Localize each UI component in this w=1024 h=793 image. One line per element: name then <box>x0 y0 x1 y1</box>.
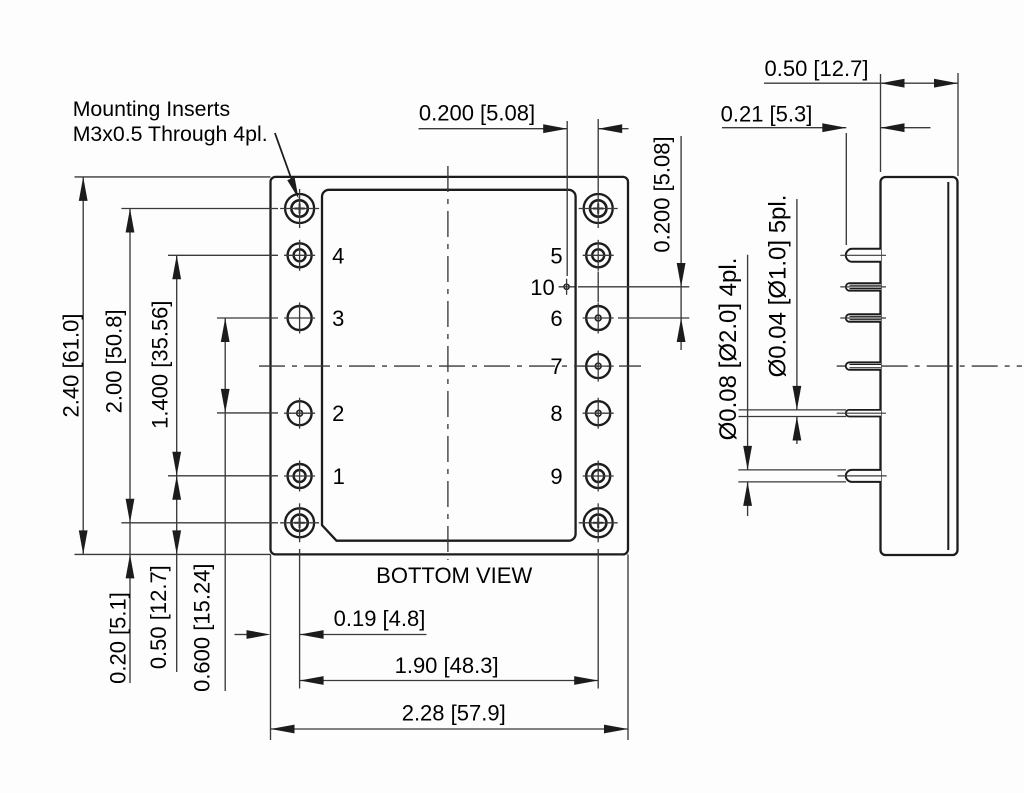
pin 3 <box>284 303 315 334</box>
dimension line 0.600 <box>224 318 226 691</box>
arrow dim 0.200 right upper <box>677 263 686 287</box>
arrow dim 2.28 right <box>604 725 628 734</box>
mounting insert top-left <box>280 189 319 228</box>
dim 2.28 line <box>271 728 629 730</box>
leader line mounting note <box>275 133 295 188</box>
arrow dim 0.200 top left <box>543 124 567 133</box>
top dim 0.200 line <box>419 128 568 130</box>
pin 1 <box>284 461 315 492</box>
bottom extension lines <box>299 549 301 689</box>
arrow dim 0.200 top right <box>598 124 622 133</box>
svg-text:M3x0.5 Through 4pl.: M3x0.5 Through 4pl. <box>73 122 268 146</box>
pin 5 <box>583 240 614 271</box>
svg-text:2.00 [50.8]: 2.00 [50.8] <box>101 309 126 413</box>
arrow dim 0.21 right <box>881 123 905 132</box>
svg-text:2.40 [61.0]: 2.40 [61.0] <box>58 314 83 418</box>
arrow dim 0.50 side right <box>934 79 958 88</box>
arrow dim 1.90 right <box>574 676 598 685</box>
dimension line 2.40 <box>82 177 84 555</box>
pin 9 <box>583 461 614 492</box>
inner pin-surface outline with bottom-left chamfer <box>322 190 576 541</box>
svg-text:3: 3 <box>332 306 344 331</box>
svg-text:5: 5 <box>550 243 562 268</box>
dim 0.21 line <box>722 127 846 129</box>
svg-text:1.90 [48.3]: 1.90 [48.3] <box>395 653 499 678</box>
svg-text:0.19 [4.8]: 0.19 [4.8] <box>334 606 426 631</box>
svg-text:Mounting Inserts: Mounting Inserts <box>73 97 230 121</box>
module body outline <box>271 177 629 555</box>
svg-text:2.28 [57.9]: 2.28 [57.9] <box>402 700 506 725</box>
arrow dia 0.04 lower <box>793 417 802 441</box>
svg-text:9: 9 <box>550 464 562 489</box>
arrow dim 2.00 bottom <box>126 499 135 523</box>
arrow dim 2.40 bottom <box>79 530 88 554</box>
side view texts <box>715 56 868 441</box>
arrow dim 0.600 bottom <box>221 389 230 413</box>
dimension texts (bottom view) <box>58 97 674 725</box>
svg-text:Ø0.04 [Ø1.0] 5pl.: Ø0.04 [Ø1.0] 5pl. <box>764 195 791 378</box>
arrow dim 0.19 left <box>247 630 271 639</box>
side pin stub row 7 (thin) <box>846 362 881 370</box>
arrow dim 1.90 left <box>300 676 324 685</box>
svg-text:BOTTOM VIEW: BOTTOM VIEW <box>376 563 532 588</box>
arrow dim 0.50 top <box>172 476 181 500</box>
arrow dia 0.08 lower <box>743 482 752 506</box>
side pin stub row 1/9 (thick, dimensioned) <box>738 470 886 482</box>
arrow dim 2.28 left <box>271 725 295 734</box>
arrow dim 2.40 top <box>79 177 88 201</box>
arrow dia 0.08 upper <box>743 446 752 470</box>
dim dia 0.08 line <box>747 255 749 470</box>
side pin stub row 10 (thin) <box>840 283 886 291</box>
svg-text:6: 6 <box>550 306 562 331</box>
mounting insert top-right <box>579 189 618 228</box>
top dim extension lines <box>566 121 568 276</box>
dim 0.19 line <box>235 634 250 636</box>
side body inner seam line <box>947 182 949 550</box>
pin 4 <box>284 240 315 271</box>
svg-text:0.50 [12.7]: 0.50 [12.7] <box>146 565 171 669</box>
dimension line 2.00 / 0.20 <box>129 209 131 684</box>
svg-text:1.400 [35.56]: 1.400 [35.56] <box>148 300 173 428</box>
arrow dim 2.00 top <box>126 209 135 233</box>
arrow dim 1.400 bottom <box>172 452 181 476</box>
side pin stub row 2/8 (thin, dimensioned) <box>739 410 887 417</box>
side body outline <box>881 177 958 555</box>
svg-text:0.21 [5.3]: 0.21 [5.3] <box>721 102 813 127</box>
dimension line 1.400 / 0.50 <box>176 255 178 672</box>
svg-text:0.50 [12.7]: 0.50 [12.7] <box>765 56 869 81</box>
dim 0.50 (side) line <box>764 82 958 84</box>
svg-text:10: 10 <box>530 275 554 300</box>
arrow dim 1.400 top <box>172 255 181 279</box>
arrow dia 0.04 upper <box>793 386 802 410</box>
pin 10 <box>559 279 575 295</box>
pin number labels <box>332 243 563 489</box>
vertical centerline <box>447 166 449 560</box>
arrow dim 0.50 side left <box>881 79 905 88</box>
row extension lines (left side) <box>75 176 271 178</box>
arrow dim 0.200 right lower <box>677 318 686 342</box>
pin 8 <box>583 398 614 429</box>
svg-text:4: 4 <box>332 243 344 268</box>
svg-text:0.200 [5.08]: 0.200 [5.08] <box>650 136 675 252</box>
dim 1.90 line <box>300 680 599 682</box>
mounting insert bottom-left <box>280 503 319 542</box>
leader arrowhead mounting note <box>287 177 298 198</box>
svg-text:0.20 [5.1]: 0.20 [5.1] <box>105 592 130 684</box>
arrow dim 0.600 top <box>221 318 230 342</box>
right rows extension <box>578 286 689 288</box>
arrow dim 0.19 right <box>300 630 324 639</box>
pin 7 <box>583 351 614 382</box>
svg-text:0.600 [15.24]: 0.600 [15.24] <box>189 563 214 691</box>
arrow dim 0.21 left <box>822 123 846 132</box>
arrow dim 0.20 bottom <box>126 554 135 578</box>
pin 6 <box>583 303 614 334</box>
svg-text:Ø0.08 [Ø2.0] 4pl.: Ø0.08 [Ø2.0] 4pl. <box>715 258 742 441</box>
side pin stub row 4/5 (thick) <box>840 249 886 262</box>
side centerline (pin 7 row) <box>837 365 1022 367</box>
dim dia 0.04 line <box>796 199 798 410</box>
arrowheads <box>79 124 686 733</box>
mounting insert bottom-right <box>579 503 618 542</box>
svg-text:8: 8 <box>550 401 562 426</box>
horizontal centerline <box>259 365 641 367</box>
pin 2 <box>284 398 315 429</box>
svg-text:0.200 [5.08]: 0.200 [5.08] <box>419 100 535 125</box>
side arrowheads <box>743 79 958 506</box>
side pin stub row 3/6 (thin) <box>840 314 886 322</box>
right dim 0.200 line <box>680 136 682 350</box>
svg-text:2: 2 <box>332 401 344 426</box>
svg-text:1: 1 <box>333 464 345 489</box>
arrow dim 0.50 bottom <box>172 530 181 554</box>
svg-text:7: 7 <box>550 354 562 379</box>
